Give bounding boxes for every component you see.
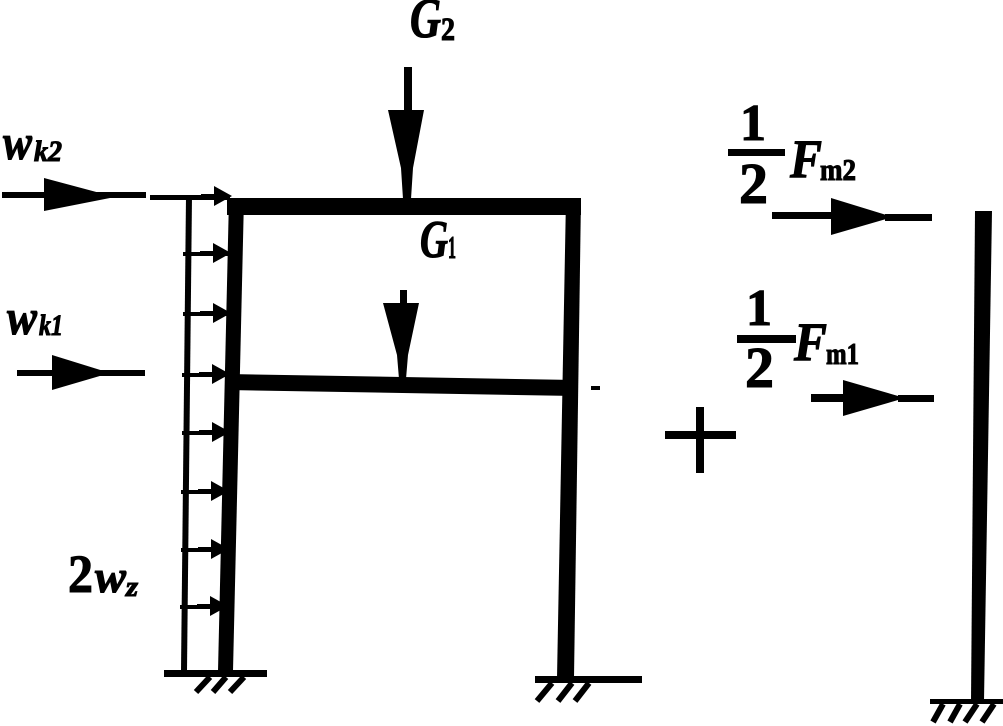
plus sign — [665, 407, 736, 473]
distributed load tick 3 — [183, 312, 230, 316]
force arrow wk1 — [17, 355, 145, 390]
svg-text:F: F — [789, 129, 822, 189]
equivalent support hatch 4 — [982, 704, 994, 722]
left support base line — [164, 670, 267, 677]
frame top beam — [227, 198, 581, 215]
distributed load small arrow 1 — [201, 186, 232, 206]
right support hatch 1 — [537, 683, 552, 701]
distributed load tick 1 — [150, 195, 230, 200]
frame right column — [557, 198, 581, 678]
equivalent column support base line — [930, 699, 1003, 704]
distributed load small arrow 5 — [199, 422, 230, 442]
svg-text:2: 2 — [745, 335, 774, 400]
svg-text:m2: m2 — [820, 152, 856, 187]
frame middle beam — [227, 374, 576, 396]
distributed load small arrow 2 — [200, 243, 231, 263]
left support hatch 1 — [196, 677, 210, 692]
svg-text:2: 2 — [441, 12, 455, 48]
fraction bar Fm1 — [737, 335, 796, 343]
load arrow G1 — [383, 290, 419, 379]
equivalent support hatch 2 — [950, 704, 960, 722]
svg-text:k2: k2 — [34, 135, 62, 168]
equivalent support hatch 3 — [965, 704, 977, 722]
distributed load tick 7 — [181, 548, 229, 552]
svg-text:w: w — [95, 551, 126, 602]
svg-text:G: G — [410, 0, 441, 50]
distributed load small arrow 3 — [200, 303, 231, 323]
distributed load small arrow 8 — [197, 596, 228, 616]
distributed load tick 8 — [180, 605, 229, 609]
force arrow Fm1 — [811, 380, 934, 416]
svg-text:1: 1 — [746, 280, 772, 337]
right support base line — [535, 676, 642, 683]
left support hatch 3 — [230, 677, 244, 692]
svg-text:F: F — [793, 312, 827, 372]
left support hatch 2 — [213, 677, 226, 692]
frame left column — [218, 198, 244, 671]
svg-text:G: G — [420, 211, 448, 269]
distributed load small arrow 7 — [198, 539, 229, 559]
fraction bar Fm2 — [728, 149, 785, 156]
force arrow Fm2 — [772, 198, 932, 235]
right support hatch 2 — [558, 683, 572, 701]
equivalent support hatch 1 — [933, 704, 943, 722]
svg-text:2: 2 — [739, 151, 768, 216]
distributed load small arrow 6 — [198, 481, 229, 501]
svg-text:2: 2 — [68, 544, 93, 604]
svg-text:w: w — [3, 114, 33, 170]
svg-text:m1: m1 — [826, 336, 859, 371]
distributed load tick 2 — [183, 252, 230, 256]
distributed load tick 4 — [182, 373, 229, 377]
svg-text:w: w — [7, 289, 38, 345]
svg-text:1: 1 — [448, 229, 456, 265]
distributed load tick 5 — [182, 431, 229, 435]
distributed load small arrow 4 — [199, 364, 230, 384]
force arrow wk2 — [2, 178, 146, 211]
equivalent column — [971, 211, 992, 701]
middle beam right stub mark — [591, 386, 600, 390]
svg-text:k1: k1 — [39, 309, 63, 342]
load arrow G2 — [388, 67, 424, 199]
distributed load tick 6 — [181, 490, 229, 494]
right support hatch 3 — [575, 683, 589, 701]
svg-text:z: z — [125, 572, 138, 603]
svg-text:1: 1 — [740, 95, 766, 152]
distributed load line — [181, 196, 192, 671]
